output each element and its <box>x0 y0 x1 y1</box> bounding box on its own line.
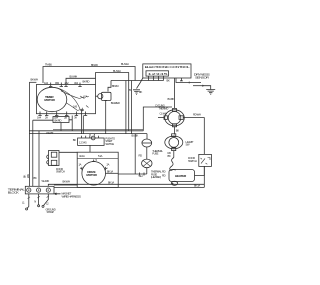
SECTION: top wiring <box>29 62 135 186</box>
wire stat right to door switch column <box>183 118 204 155</box>
door switch contacts <box>201 158 211 165</box>
timer bottom terminal 1 <box>38 112 41 116</box>
bus wire lower to thermal fuse <box>29 133 147 135</box>
timer bottom terminal 5 <box>75 112 78 116</box>
connector top terminals <box>81 136 98 138</box>
svg-text:(HEATER): (HEATER) <box>151 175 161 179</box>
svg-text:5 1A: 5 1A <box>98 154 103 158</box>
svg-text:BU-BK: BU-BK <box>168 97 175 101</box>
bus L2 from block right edge to right <box>54 186 204 188</box>
wires bus to connector <box>90 134 94 136</box>
motor connector box <box>78 138 105 145</box>
terminal block lug 2 <box>37 188 41 192</box>
svg-text:CL-WH: CL-WH <box>160 112 167 116</box>
wire bus N drop to terminal block <box>38 131 40 186</box>
svg-text:SWITCH: SWITCH <box>56 170 65 174</box>
timer top terminal 3 <box>64 85 67 87</box>
magnet wire harness label with arrow <box>55 193 61 195</box>
cycling thermostat pads <box>172 109 176 112</box>
svg-text:BK-RD: BK-RD <box>83 79 90 83</box>
wire fuse to heater fuse <box>146 147 148 159</box>
terminal block TB1 <box>25 186 54 194</box>
SECTION: motor <box>47 134 119 188</box>
svg-text:RD-WH: RD-WH <box>193 113 201 117</box>
timer top terminal 2 <box>60 83 63 87</box>
wire timer corner to drop2 <box>96 71 129 73</box>
svg-text:STRAP: STRAP <box>47 210 55 214</box>
svg-text:MOTOR: MOTOR <box>86 173 97 177</box>
svg-text:FUSE: FUSE <box>152 152 158 156</box>
svg-text:ELECTRONIC CONTROL: ELECTRONIC CONTROL <box>145 65 191 69</box>
wire fuse2 down to connector wire <box>146 168 148 174</box>
bus wire pair second <box>53 128 143 130</box>
wire buzzer down to bus <box>105 102 107 134</box>
buzzer terminal <box>105 101 108 103</box>
svg-text:BU-WH: BU-WH <box>121 62 129 66</box>
bus under electronic control <box>111 80 164 82</box>
terminal block lug 3 <box>46 188 50 192</box>
SECTION: timer <box>33 79 143 135</box>
bus wire pair upper <box>29 130 143 132</box>
heater lead squiggle <box>170 158 176 171</box>
wire timer to control bus second <box>66 78 96 84</box>
svg-text:BK 1A: BK 1A <box>194 183 200 187</box>
polarity ticks on leads <box>28 196 49 199</box>
thermal fuse heater oval F2 <box>142 159 152 168</box>
SECTION: right column <box>118 78 211 187</box>
electronic control terminal strip 1-5 <box>146 71 169 76</box>
SECTION: middle <box>29 69 172 137</box>
motor terminal top <box>92 160 95 162</box>
timer cam follower contacts <box>59 89 80 111</box>
wire control to sensor <box>176 78 189 83</box>
wire sensor to ground <box>203 86 211 90</box>
timer top terminal 4 <box>78 83 81 87</box>
ground G2 at sensor <box>206 90 215 95</box>
wire bus drop 2 <box>128 72 130 130</box>
wire timer box to buzzer <box>96 95 98 97</box>
svg-text:TM-BU: TM-BU <box>45 63 52 67</box>
motor terminal right <box>106 167 108 170</box>
wire from control to cycling thermostat <box>174 78 176 108</box>
svg-text:BK-WH: BK-WH <box>31 78 39 82</box>
drive motor circle M1 <box>82 162 106 186</box>
svg-text:BK-RD: BK-RD <box>91 63 98 67</box>
timer bottom terminal 2 <box>45 112 48 116</box>
wire up to cycling thermostat top <box>143 107 172 131</box>
wire L2 below block <box>44 194 49 206</box>
wire N below block <box>38 194 40 205</box>
wire heater right to door switch column <box>195 166 205 175</box>
timer bottom terminal 3 <box>55 112 58 116</box>
svg-text:MOTOR: MOTOR <box>44 98 55 102</box>
drive motor box <box>77 152 118 187</box>
timer bottom terminal 4 <box>65 112 68 116</box>
cycling thermostat body <box>165 110 185 126</box>
wire bus drop 1 <box>125 81 127 134</box>
wire block to motor left <box>54 184 77 186</box>
svg-text:WH: WH <box>139 174 143 178</box>
svg-text:SENSOR: SENSOR <box>195 75 209 79</box>
timer top terminal 1 <box>49 83 52 87</box>
connector circle on top <box>91 136 95 140</box>
wire jog from left bus to timer top corner <box>29 81 36 83</box>
heater element box <box>169 170 195 182</box>
svg-text:1 2 3 4 5: 1 2 3 4 5 <box>79 141 87 145</box>
svg-text:BUZZER: BUZZER <box>111 101 120 105</box>
wire left bus WH down to terminal block <box>32 120 34 186</box>
svg-text:BK 1A: BK 1A <box>107 169 113 173</box>
svg-text:HEATER: HEATER <box>175 174 187 178</box>
dryness sensor electrode bar 2 <box>193 85 203 87</box>
hi-limit thermostat body <box>165 136 183 149</box>
wire left bus BK down to terminal block <box>28 82 30 186</box>
svg-text:BU-WH: BU-WH <box>113 69 121 73</box>
svg-text:RD: RD <box>162 170 166 174</box>
wires terminal strip to bus <box>149 76 164 80</box>
svg-text:SWITCH: SWITCH <box>188 159 197 163</box>
hi-limit pad bottom <box>172 148 176 151</box>
hi-limit pad top <box>172 134 176 137</box>
motor box inner wire <box>77 158 118 160</box>
buzzer body <box>102 92 112 100</box>
wire L1 below block <box>27 194 29 208</box>
electronic control box U1 <box>143 64 191 78</box>
svg-text:THERMO: THERMO <box>159 106 169 110</box>
svg-text:BK-BU: BK-BU <box>112 84 119 88</box>
svg-text:BLOCK: BLOCK <box>8 191 19 195</box>
ground G1 at control <box>133 78 143 94</box>
svg-text:BK-RD: BK-RD <box>55 118 62 122</box>
svg-text:BU-WH: BU-WH <box>70 74 78 78</box>
svg-text:BK-WH: BK-WH <box>63 179 71 183</box>
wire bus to fuse <box>146 134 148 139</box>
timer assembly box <box>36 85 95 114</box>
wire motor right to heater feed <box>106 172 119 174</box>
heater bottom-left loop terminal <box>171 181 177 185</box>
wire from left bus to resistor <box>33 119 72 121</box>
timer motor circle <box>37 87 67 111</box>
door switch assembly left <box>49 151 60 166</box>
wire bus down to buzzer <box>108 81 111 92</box>
wire timer drop to bus pair <box>71 116 73 131</box>
svg-text:1 2 3 4 5: 1 2 3 4 5 <box>148 72 169 76</box>
wire hi-limit to heater with labels RD BK <box>173 151 175 158</box>
stub terminal on control box <box>180 78 183 81</box>
dryness sensor electrode bar 1 <box>189 82 201 84</box>
resistor box below timer <box>53 117 69 123</box>
wire stub stat left <box>158 117 164 119</box>
wire timer drop pair to connector <box>82 110 84 134</box>
wire drop from bus to motor area <box>134 134 136 174</box>
motor terminal left <box>80 167 82 170</box>
door switch box right <box>199 154 212 166</box>
wire bus drop 3 <box>130 81 132 134</box>
svg-text:BK 1A: BK 1A <box>108 181 114 185</box>
wire door switch down to bus <box>203 166 205 187</box>
connector marks on heater feed wire <box>118 173 147 176</box>
SECTION: control <box>108 64 215 95</box>
svg-text:WIRE HARNESS: WIRE HARNESS <box>62 194 82 198</box>
bus N from block to right <box>48 184 204 186</box>
svg-text:RD: RD <box>168 151 172 155</box>
svg-text:4A 1A: 4A 1A <box>79 154 85 158</box>
timer bottom terminal 6 <box>84 112 87 116</box>
svg-text:RD: RD <box>162 174 166 178</box>
wire connector to motor <box>89 145 91 152</box>
wire drop to timer box right corner <box>95 72 97 84</box>
wire door switch to motor box <box>59 151 77 153</box>
svg-text:WH RD: WH RD <box>42 179 50 183</box>
door switch side bumps <box>47 155 49 164</box>
wire resistor down <box>60 123 62 131</box>
buzzer coil circle <box>98 94 103 99</box>
wire TM-BU from timer to electronic control <box>43 67 135 84</box>
wire stat bottom to hi-limit <box>174 127 176 135</box>
SECTION: bottom <box>8 174 205 214</box>
timer switch contact marks <box>78 96 90 112</box>
svg-text:RD: RD <box>139 154 143 158</box>
svg-text:SWITCH: SWITCH <box>105 142 114 146</box>
svg-text:WH: WH <box>26 174 30 178</box>
thermal fuse F1 oval <box>142 139 152 147</box>
svg-text:WH-BK: WH-BK <box>46 131 54 135</box>
terminal block lug 1 <box>27 188 31 192</box>
